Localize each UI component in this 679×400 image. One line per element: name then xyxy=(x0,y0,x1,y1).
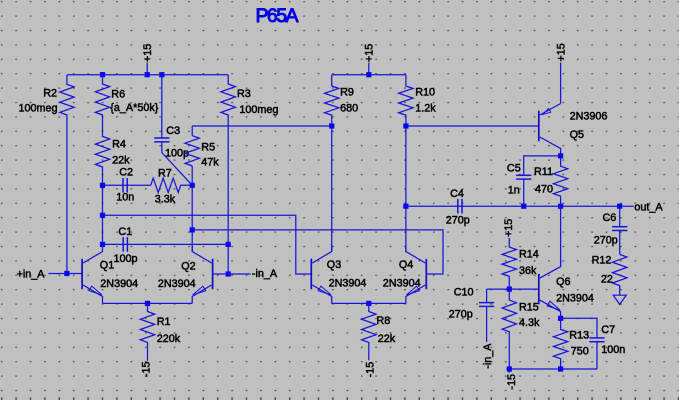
resistor R15 xyxy=(502,289,516,369)
svg-text:out_A: out_A xyxy=(634,202,663,214)
svg-text:+15: +15 xyxy=(364,44,376,62)
svg-text:R10: R10 xyxy=(415,86,435,98)
wire Q6 emitter to C7 xyxy=(561,318,597,336)
svg-text:+15: +15 xyxy=(142,44,154,62)
wire R4 bottom to Q1 collector xyxy=(102,185,104,244)
svg-text:470: 470 xyxy=(535,184,553,196)
resistor R5 xyxy=(185,136,199,166)
wire Q2 base stub xyxy=(213,273,229,275)
svg-text:2N3904: 2N3904 xyxy=(329,278,367,290)
resistor R14 xyxy=(502,238,516,289)
wire Q5 collector to Q6 collector xyxy=(560,206,562,266)
svg-text:-in_A: -in_A xyxy=(482,343,494,369)
svg-text:R8: R8 xyxy=(376,315,390,327)
resistor R2 xyxy=(60,75,74,133)
svg-text:680: 680 xyxy=(340,103,358,115)
transistor Q2 xyxy=(212,259,214,289)
svg-text:P65A: P65A xyxy=(256,5,299,27)
svg-text:+15: +15 xyxy=(555,43,567,61)
svg-text:270p: 270p xyxy=(449,309,473,321)
wire y126 line R5 to R9 xyxy=(192,125,332,127)
svg-text:22: 22 xyxy=(601,274,613,286)
node junction R14/R15/Q6 base xyxy=(507,287,512,292)
svg-text:R7: R7 xyxy=(158,168,172,180)
svg-text:47k: 47k xyxy=(201,156,219,168)
svg-text:22k: 22k xyxy=(378,333,396,345)
svg-text:Q4: Q4 xyxy=(399,259,413,271)
node junction R2/+in_A xyxy=(64,271,69,276)
capacitor C4 xyxy=(406,205,524,207)
wire output line xyxy=(524,205,634,207)
svg-text:C10: C10 xyxy=(454,287,474,299)
svg-text:4.3k: 4.3k xyxy=(519,317,540,329)
svg-text:3.3k: 3.3k xyxy=(155,194,176,206)
node junction y230 line xyxy=(190,227,195,232)
node junction rail/R6 xyxy=(100,72,105,77)
svg-text:2N3904: 2N3904 xyxy=(158,278,196,290)
node junction C5/out xyxy=(521,204,526,209)
power flag +15 (middle) xyxy=(368,63,370,75)
svg-text:C4: C4 xyxy=(450,188,464,200)
svg-text:36k: 36k xyxy=(519,265,537,277)
capacitor C10 xyxy=(486,289,488,303)
svg-text:C5: C5 xyxy=(507,162,521,174)
svg-text:+in_A: +in_A xyxy=(17,268,46,280)
svg-text:C3: C3 xyxy=(166,125,180,137)
wire Q6 base wire xyxy=(509,288,539,290)
resistor R9 xyxy=(325,75,339,126)
node junction Q1 collector xyxy=(100,242,105,247)
svg-text:R12: R12 xyxy=(592,255,612,267)
wire +in_A to Q1 base xyxy=(49,273,83,275)
node junction R7/R5/C3 xyxy=(190,183,195,188)
resistor R6 xyxy=(95,75,109,133)
svg-text:2N3904: 2N3904 xyxy=(100,278,138,290)
node junction Q6 emitter xyxy=(558,316,563,321)
svg-text:R3: R3 xyxy=(237,88,251,100)
wire R2 to +in_A node xyxy=(66,132,68,273)
wire R9 to Q3 collector xyxy=(331,126,333,251)
node junction R9/y126 xyxy=(329,123,334,128)
svg-text:-15: -15 xyxy=(364,362,376,378)
transistor Q6 xyxy=(538,274,540,304)
wire y126 line R10 to Q5 base xyxy=(406,125,539,127)
node junction R10/y126 xyxy=(403,123,408,128)
power flag -15 (R15) xyxy=(508,369,510,373)
resistor R3 xyxy=(221,75,235,133)
svg-text:R1: R1 xyxy=(157,316,171,328)
svg-text:100meg: 100meg xyxy=(239,104,278,116)
node junction Q5 collector xyxy=(558,153,563,158)
node junction rail2/+15 xyxy=(366,72,371,77)
node junction rail/C3 xyxy=(159,72,164,77)
svg-text:Q3: Q3 xyxy=(327,259,341,271)
svg-text:R14: R14 xyxy=(519,249,539,261)
node junction bus/R1 xyxy=(145,301,150,306)
resistor R13 xyxy=(553,318,567,369)
svg-text:R5: R5 xyxy=(201,141,215,153)
svg-text:270p: 270p xyxy=(594,234,618,246)
wire C10 top xyxy=(487,288,510,290)
wire R10 to Q4 collector xyxy=(405,126,407,251)
svg-text:220k: 220k xyxy=(157,333,181,345)
wire Q5 emitter to +15 xyxy=(560,63,562,104)
svg-text:C6: C6 xyxy=(603,212,617,224)
node junction R4/C2 xyxy=(100,183,105,188)
svg-text:R13: R13 xyxy=(569,330,589,342)
svg-text:-15: -15 xyxy=(140,362,152,378)
wire y215 line to Q3 base xyxy=(103,215,312,274)
svg-text:R6: R6 xyxy=(111,88,125,100)
svg-text:2N3906: 2N3906 xyxy=(570,110,608,122)
wire +15 rail (middle) xyxy=(332,74,406,76)
svg-text:Q6: Q6 xyxy=(556,276,570,288)
resistor R11 xyxy=(553,156,567,206)
svg-text:Q1: Q1 xyxy=(100,259,114,271)
transistor Q3 xyxy=(310,259,312,289)
svg-text:22k: 22k xyxy=(112,154,130,166)
svg-text:Q5: Q5 xyxy=(570,129,584,141)
capacitor C7 xyxy=(596,337,598,338)
capacitor C5 xyxy=(523,174,525,176)
wire R5 bottom to Q2 collector xyxy=(191,166,193,252)
svg-text:C2: C2 xyxy=(119,167,133,179)
wire C3 diagonal to R7 node xyxy=(162,153,192,186)
node junction R3/-in_A xyxy=(226,271,231,276)
svg-text:R4: R4 xyxy=(112,139,126,151)
svg-text:100p: 100p xyxy=(114,253,138,265)
bottom edge grid ticks xyxy=(1,397,679,400)
transistor Q1 xyxy=(81,259,83,289)
svg-text:R9: R9 xyxy=(340,86,354,98)
resistor R12 xyxy=(613,254,627,294)
svg-text:R11: R11 xyxy=(534,166,553,178)
svg-text:R15: R15 xyxy=(519,301,539,313)
power flag +15 (left rail) xyxy=(146,63,148,75)
wire +15 rail (left) xyxy=(67,74,228,76)
svg-text:2N3904: 2N3904 xyxy=(556,293,594,305)
capacitor C6 xyxy=(619,206,621,227)
wire -in_A stub xyxy=(228,273,250,275)
capacitor C1 xyxy=(103,243,229,245)
svg-text:Q2: Q2 xyxy=(181,261,195,273)
svg-text:10n: 10n xyxy=(116,191,134,203)
svg-text:100meg: 100meg xyxy=(18,103,57,115)
resistor R8 xyxy=(362,303,376,360)
node junction R3/C1 line xyxy=(226,242,231,247)
capacitor C3 xyxy=(161,75,163,138)
node junction C6/out xyxy=(617,204,622,209)
ground symbol xyxy=(613,295,626,304)
svg-text:1n: 1n xyxy=(508,185,520,197)
svg-text:750: 750 xyxy=(571,345,589,357)
node junction bus2/R8 xyxy=(366,301,371,306)
node junction bottom rail/R13 xyxy=(558,366,563,371)
wire R5 top corner xyxy=(191,126,193,136)
svg-text:-in_A: -in_A xyxy=(252,268,278,280)
svg-text:270p: 270p xyxy=(446,214,470,226)
wire Q3-Q4 emitter bus xyxy=(332,302,406,304)
resistor R1 xyxy=(140,303,154,360)
svg-text:C7: C7 xyxy=(601,324,615,336)
node junction R11/out xyxy=(558,204,563,209)
node junction C4 tap xyxy=(403,204,408,209)
transistor Q4 xyxy=(425,259,427,289)
svg-text:1.2k: 1.2k xyxy=(415,103,436,115)
node junction rail/+15 xyxy=(145,72,150,77)
resistor R4 xyxy=(95,132,109,185)
resistor R10 xyxy=(399,75,413,126)
svg-text:+15: +15 xyxy=(503,219,515,237)
svg-text:2N3904: 2N3904 xyxy=(383,278,421,290)
svg-text:100n: 100n xyxy=(601,344,625,356)
node junction x102/y215 xyxy=(100,213,105,218)
wire bottom rail xyxy=(509,368,597,370)
wire R3 to -in_A node xyxy=(227,132,229,274)
wire C5 top corner xyxy=(524,156,561,175)
resistor R7 xyxy=(151,178,193,192)
svg-text:-15: -15 xyxy=(506,374,518,390)
capacitor C2 xyxy=(103,184,151,186)
wire y230 line to Q4 base xyxy=(192,230,443,274)
transistor Q5 xyxy=(538,111,540,141)
wire Q1-Q2 emitter bus xyxy=(103,302,193,304)
svg-text:R2: R2 xyxy=(43,87,57,99)
svg-text:{a_A*50k}: {a_A*50k} xyxy=(110,102,158,114)
svg-text:C1: C1 xyxy=(118,226,132,238)
